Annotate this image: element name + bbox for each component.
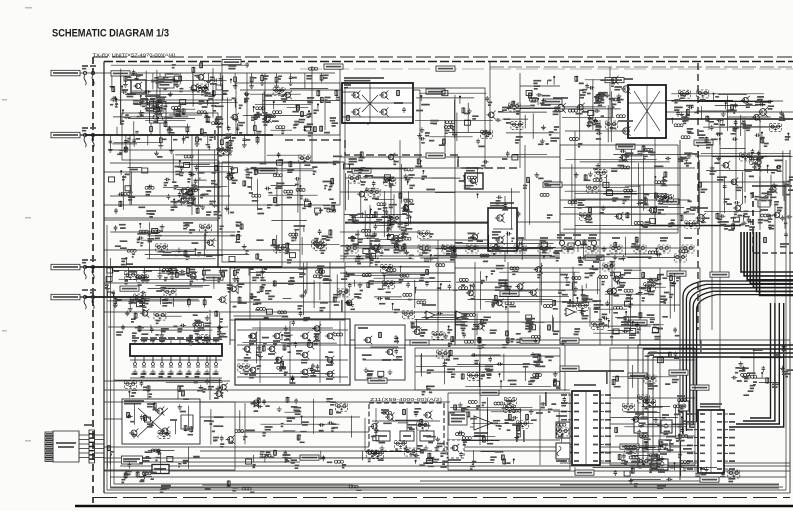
component cluster 9 — [341, 211, 414, 264]
boxed label 8 — [660, 199, 679, 204]
component cluster 3 — [109, 143, 163, 217]
connector box CAR — [51, 70, 80, 76]
transistor Q1 box — [131, 75, 146, 93]
right partial dashed top line — [490, 66, 793, 68]
wire BAT to border — [80, 134, 104, 136]
component cluster 20 — [567, 237, 688, 265]
wire GSI to border — [80, 296, 104, 298]
component cluster 47 — [238, 324, 343, 375]
boxed label 22 — [120, 286, 139, 291]
component cluster 39 — [107, 445, 199, 482]
connector block TX-RG C-N-GNE — [45, 431, 79, 462]
transistor Q30 — [749, 157, 764, 172]
component cluster 14 — [667, 90, 791, 148]
faint top line — [300, 68, 793, 70]
component cluster 25 — [599, 263, 681, 337]
component cluster 48 — [362, 338, 403, 380]
boxed label 15 — [560, 366, 579, 371]
wire LSI bus extension — [282, 266, 430, 268]
block Z11 (X59-4000-00)(A/2) — [369, 397, 444, 451]
block Z(0)(X59-3966) region — [752, 186, 793, 253]
component drops along GSI bus — [113, 297, 206, 311]
LCD regulator label — [121, 456, 142, 464]
relay pulse absorber label — [158, 77, 174, 88]
mixer block QR1/QR2 — [122, 399, 200, 444]
boxed label 18 — [667, 271, 686, 276]
bottom dashed border — [93, 497, 790, 499]
heavy staircase bus right-bottom — [638, 345, 793, 468]
functional block outline rects — [104, 83, 700, 470]
dashed routed bus from BAT — [285, 140, 520, 168]
boxed label 32 — [690, 385, 709, 390]
boxed label 13 — [352, 168, 371, 173]
component cluster 23 — [337, 264, 457, 313]
component cluster 19 — [418, 231, 563, 262]
op-amp IC5a — [422, 305, 437, 319]
pigtail GSI b — [90, 290, 96, 309]
connectors CN5 W1 CN5 — [557, 235, 597, 252]
box Q12 — [465, 168, 483, 189]
boxed label 7 — [543, 182, 562, 187]
module SD-6 (X66-1520-00) — [342, 78, 413, 123]
bottom heavy page edge — [75, 505, 793, 507]
component cluster 30 — [574, 301, 663, 339]
boxed label 21 — [585, 255, 604, 260]
left border vertical x104 — [103, 62, 105, 494]
transistor Q21 — [755, 102, 770, 117]
pigtail LSI a — [82, 260, 88, 279]
boxed label 27 — [575, 470, 594, 475]
boxed label 16 — [300, 455, 319, 460]
block Q29 cluster — [355, 325, 405, 380]
component cluster 13 — [561, 76, 625, 147]
box Q57 — [657, 459, 668, 472]
component cluster 27 — [115, 379, 228, 399]
boxed label 5 — [605, 78, 624, 83]
relay C4 — [150, 96, 167, 123]
long horizontal wires — [104, 73, 793, 488]
boxed label 10 — [426, 89, 445, 94]
boxed label 2 — [222, 60, 241, 65]
pigtail BAT b — [90, 128, 96, 147]
op-amp IC4 — [562, 302, 577, 316]
component cluster 12 — [533, 77, 554, 89]
component cluster 2 — [243, 88, 340, 136]
wires block to border — [79, 435, 104, 458]
boxed label 12 — [258, 168, 277, 173]
component cluster 43 — [340, 231, 414, 264]
pigtail GSI a — [82, 290, 88, 309]
outer dashed top border — [93, 56, 793, 58]
boxed label 3 — [324, 64, 343, 69]
component cluster 40 — [246, 448, 425, 468]
component cluster 37 — [540, 397, 569, 443]
boxed label 14 — [500, 291, 519, 296]
label CURRENT REVERSAL PREVENTION — [449, 412, 467, 425]
boxed label 30 — [368, 378, 387, 383]
bus module out y119 — [666, 118, 793, 120]
bus GSI y297 — [85, 296, 212, 298]
op-amp IC14 — [470, 416, 498, 436]
nested border 3 — [111, 258, 784, 487]
left dashed vertical border — [92, 57, 94, 503]
component cluster 49 — [127, 403, 193, 439]
regulator box OUT-IN — [152, 465, 169, 474]
component cluster 7 — [110, 222, 249, 265]
boxed label 1 — [111, 71, 130, 76]
component drops along top row — [110, 73, 329, 92]
component cluster 5 — [243, 152, 342, 215]
box CH2 dashed — [447, 440, 464, 460]
component cluster 33 — [731, 345, 793, 395]
IC13 DIP — [687, 404, 735, 473]
module right bold box — [628, 85, 666, 138]
inner dashed top border — [104, 61, 793, 63]
boxed label 28 — [700, 477, 719, 482]
component cluster 24 — [456, 263, 601, 314]
component cluster 50 — [365, 409, 446, 456]
component cluster 8 — [256, 220, 340, 262]
IC1 with pin filters — [130, 338, 222, 378]
bottom border — [104, 492, 790, 494]
component cluster 22 — [229, 263, 341, 321]
component drops along LSI bus — [112, 267, 267, 281]
box Q60 — [661, 415, 672, 433]
boxed label 20 — [436, 66, 455, 71]
component cluster 34 — [201, 402, 235, 447]
component cluster 41 — [423, 450, 514, 469]
boxed label 31 — [410, 340, 429, 345]
component cluster 21 — [105, 268, 233, 310]
svg-text:Z11(X59-4000-00)(A/2): Z11(X59-4000-00)(A/2) — [370, 397, 443, 402]
component cluster 38 — [610, 395, 695, 467]
pigtail CAR a — [82, 66, 88, 85]
boxed label 11 — [426, 153, 445, 158]
component cluster 6 — [344, 151, 415, 238]
component cluster 36 — [450, 397, 543, 445]
wire LSI to border — [80, 266, 104, 268]
component cluster 35 — [235, 397, 352, 445]
heavy right edge vertical bundle — [729, 303, 784, 427]
pigtail LSI b — [90, 260, 96, 279]
right border verticals — [786, 150, 790, 493]
transistor Q19 — [618, 121, 633, 136]
connector box GSI — [51, 294, 80, 300]
pigtail CAR b — [90, 66, 96, 85]
component cluster 17 — [563, 145, 697, 229]
component cluster 28 — [402, 311, 497, 348]
component cluster 42 — [575, 467, 740, 482]
transistor Q17 — [553, 98, 568, 113]
heavy bus down bundle — [683, 281, 793, 434]
svg-text:SCHEMATIC DIAGRAM 1/3: SCHEMATIC DIAGRAM 1/3 — [52, 28, 169, 40]
boxed label 23 — [204, 275, 223, 280]
boxes Q58 TWD pair — [556, 416, 570, 461]
right dashed vertical x698 — [697, 63, 699, 330]
boxed label 17 — [620, 444, 639, 449]
boxed label 26 — [669, 370, 688, 375]
long vertical wires — [130, 61, 775, 480]
component cluster 45 — [160, 480, 362, 492]
box Q61 — [677, 396, 689, 411]
component cluster 16 — [496, 151, 553, 230]
boxed label 24 — [628, 320, 647, 325]
bus right y225 — [640, 225, 741, 227]
transistor Q43 — [693, 208, 708, 223]
component cluster 18 — [699, 148, 793, 230]
boxed label 6 — [616, 144, 635, 149]
connector CN10 — [84, 425, 95, 463]
component cluster 44 — [618, 441, 689, 489]
component cluster 1 — [110, 67, 245, 138]
boxed label 4 — [543, 99, 562, 104]
transistor Q18 — [618, 79, 633, 94]
bus LSI y267 — [85, 266, 282, 268]
component cluster 46 — [111, 62, 318, 70]
vertical text labels — [214, 130, 702, 442]
IF filter chain row y249 — [346, 238, 694, 253]
boxed label 19 — [710, 272, 729, 277]
component cluster 15 — [415, 157, 488, 198]
box Q58 — [634, 414, 648, 433]
component cluster 26 — [116, 309, 227, 345]
boxed label 25 — [520, 338, 539, 343]
connector box LSI — [51, 264, 80, 270]
boxed label 33 — [480, 390, 499, 395]
component cluster 4 — [163, 142, 238, 219]
component cluster 11 — [495, 91, 560, 145]
boxed label 9 — [694, 140, 713, 145]
wire y223 — [345, 222, 488, 224]
IC12 DIP — [561, 385, 611, 465]
transistor array block — [235, 319, 350, 385]
heavy bus corner bundle — [741, 232, 793, 295]
boxed label 34 — [560, 338, 579, 343]
component drops along BAT bus — [108, 121, 262, 153]
connector box BAT — [51, 132, 80, 138]
margin registration marks — [2, 7, 32, 442]
pigtail BAT a — [82, 128, 88, 147]
op-amp IC5b — [454, 311, 467, 325]
component cluster 32 — [612, 351, 683, 388]
module Q46 bold box — [488, 203, 517, 251]
wire CAR to border — [80, 72, 104, 74]
component cluster 31 — [416, 350, 561, 395]
bus BAT y135 — [85, 134, 273, 136]
bold wire y371 — [560, 370, 624, 372]
box Q59 — [659, 440, 670, 454]
nested border 2 — [107, 225, 786, 490]
boxed label 29 — [628, 373, 647, 378]
nested border 4 — [114, 290, 779, 484]
component cluster 29 — [502, 315, 566, 348]
component cluster 10 — [416, 91, 496, 147]
